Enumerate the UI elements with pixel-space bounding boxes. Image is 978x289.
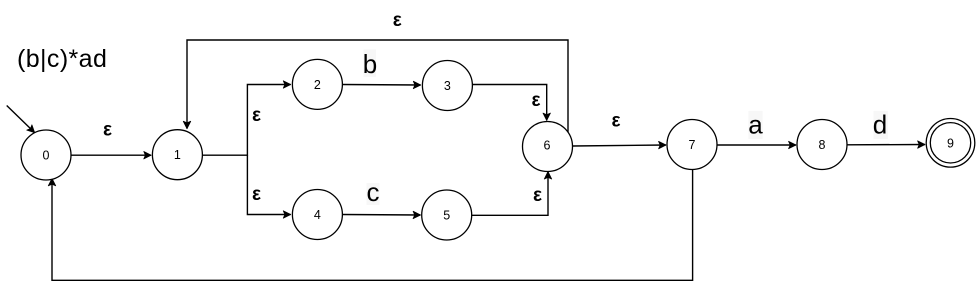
state 0	[21, 130, 71, 180]
svg-text:6: 6	[544, 138, 551, 152]
wire 1 to 4 (right, down, right)	[247, 155, 290, 214]
wire 8 to 9 labelled d	[847, 144, 925, 146]
wire 0 to 1 epsilon	[71, 154, 151, 156]
svg-text:8: 8	[819, 138, 826, 152]
node label b background	[364, 49, 377, 77]
wire start arrow into state 0	[7, 106, 35, 133]
svg-text:ε: ε	[252, 105, 261, 126]
wire 6 to 7 epsilon	[573, 145, 666, 146]
state 5	[422, 190, 472, 240]
svg-text:0: 0	[43, 149, 50, 163]
wire 1 to 2 (right, up, right)	[202, 85, 291, 156]
state 8	[797, 120, 847, 170]
state 4	[292, 190, 342, 240]
state 1	[152, 130, 202, 180]
svg-text:3: 3	[444, 79, 451, 93]
svg-text:9: 9	[947, 136, 954, 150]
state 3	[422, 61, 472, 111]
svg-text:c: c	[367, 177, 380, 207]
svg-text:ε: ε	[531, 90, 540, 111]
svg-text:ε: ε	[393, 10, 402, 31]
svg-text:(b|c)*ad: (b|c)*ad	[17, 45, 107, 73]
wire 2 to 3 labelled b	[342, 84, 421, 87]
svg-text:ε: ε	[252, 184, 261, 205]
svg-text:4: 4	[314, 208, 321, 222]
svg-text:ε: ε	[533, 185, 542, 206]
wire big epsilon loop 6 to 1 (up, left, down)	[187, 40, 568, 132]
wire 7 to 8 labelled a	[717, 144, 796, 146]
state 9 accepting (double circle)	[926, 119, 975, 168]
svg-text:2: 2	[314, 78, 321, 92]
wire 4 to 5 labelled c	[342, 214, 420, 217]
svg-text:a: a	[748, 110, 763, 140]
wire 5 to 6 (right then up)	[472, 172, 548, 216]
svg-text:ε: ε	[611, 110, 620, 131]
svg-text:b: b	[363, 49, 377, 79]
node label d background	[874, 111, 888, 139]
state 7	[667, 120, 717, 170]
state 2	[292, 59, 342, 109]
node label a background	[748, 111, 762, 139]
node label c background	[367, 183, 380, 205]
wire bottom loop 7 to 0 (down, left, up)	[52, 169, 693, 280]
state 6	[523, 122, 573, 172]
svg-text:ε: ε	[103, 119, 112, 140]
wire 3 to 6 (right then down)	[473, 85, 547, 121]
svg-text:d: d	[873, 110, 887, 140]
svg-text:5: 5	[443, 209, 450, 223]
svg-text:1: 1	[174, 148, 181, 162]
svg-text:7: 7	[689, 138, 696, 152]
